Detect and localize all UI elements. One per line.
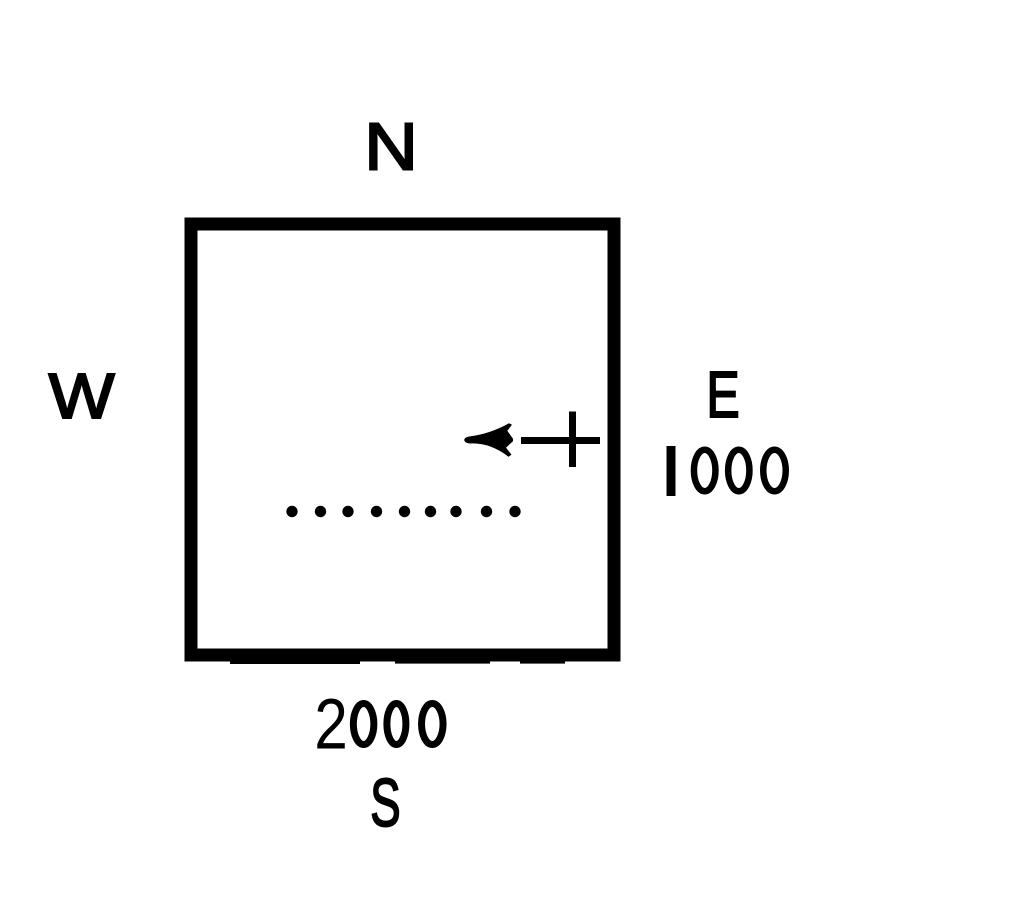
second 0 of 1000 bbox=[728, 450, 749, 492]
svg-text:N: N bbox=[364, 109, 418, 183]
arrow head bbox=[464, 423, 513, 457]
digit 1 of 1000 bbox=[667, 446, 676, 496]
value label 1000 bbox=[667, 446, 786, 496]
square plot boundary bbox=[191, 224, 614, 655]
svg-text:W: W bbox=[49, 361, 116, 433]
arrow shaft bbox=[521, 437, 600, 444]
third 0 of 1000 bbox=[763, 450, 786, 492]
dotted line bbox=[286, 506, 520, 517]
first 0 of 2000 bbox=[353, 704, 374, 745]
cross tick on arrow bbox=[569, 412, 576, 468]
svg-text:E: E bbox=[706, 359, 739, 432]
third 0 of 2000 bbox=[422, 704, 444, 745]
value label 2000 bbox=[314, 684, 443, 764]
scan raggedness under bottom border bbox=[230, 661, 565, 664]
second 0 of 2000 bbox=[387, 704, 406, 745]
svg-text:S: S bbox=[370, 766, 400, 841]
svg-text:2: 2 bbox=[314, 684, 348, 764]
first 0 of 1000 bbox=[694, 450, 716, 492]
